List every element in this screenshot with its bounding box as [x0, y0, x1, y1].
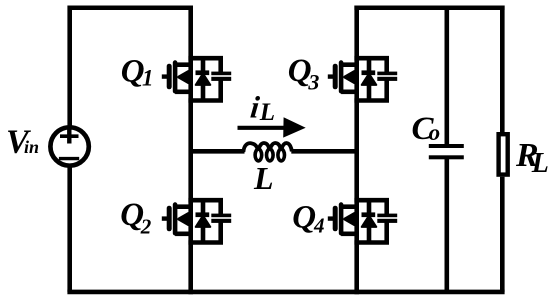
svg-text:in: in [24, 137, 39, 157]
svg-text:L: L [253, 160, 274, 196]
svg-text:3: 3 [307, 69, 319, 94]
svg-text:4: 4 [313, 214, 325, 238]
svg-text:o: o [429, 120, 441, 145]
svg-text:Q: Q [121, 53, 145, 89]
svg-text:1: 1 [142, 66, 154, 91]
svg-text:L: L [259, 99, 275, 126]
svg-text:Q: Q [292, 199, 316, 235]
svg-text:2: 2 [140, 215, 152, 239]
svg-text:L: L [531, 148, 549, 179]
